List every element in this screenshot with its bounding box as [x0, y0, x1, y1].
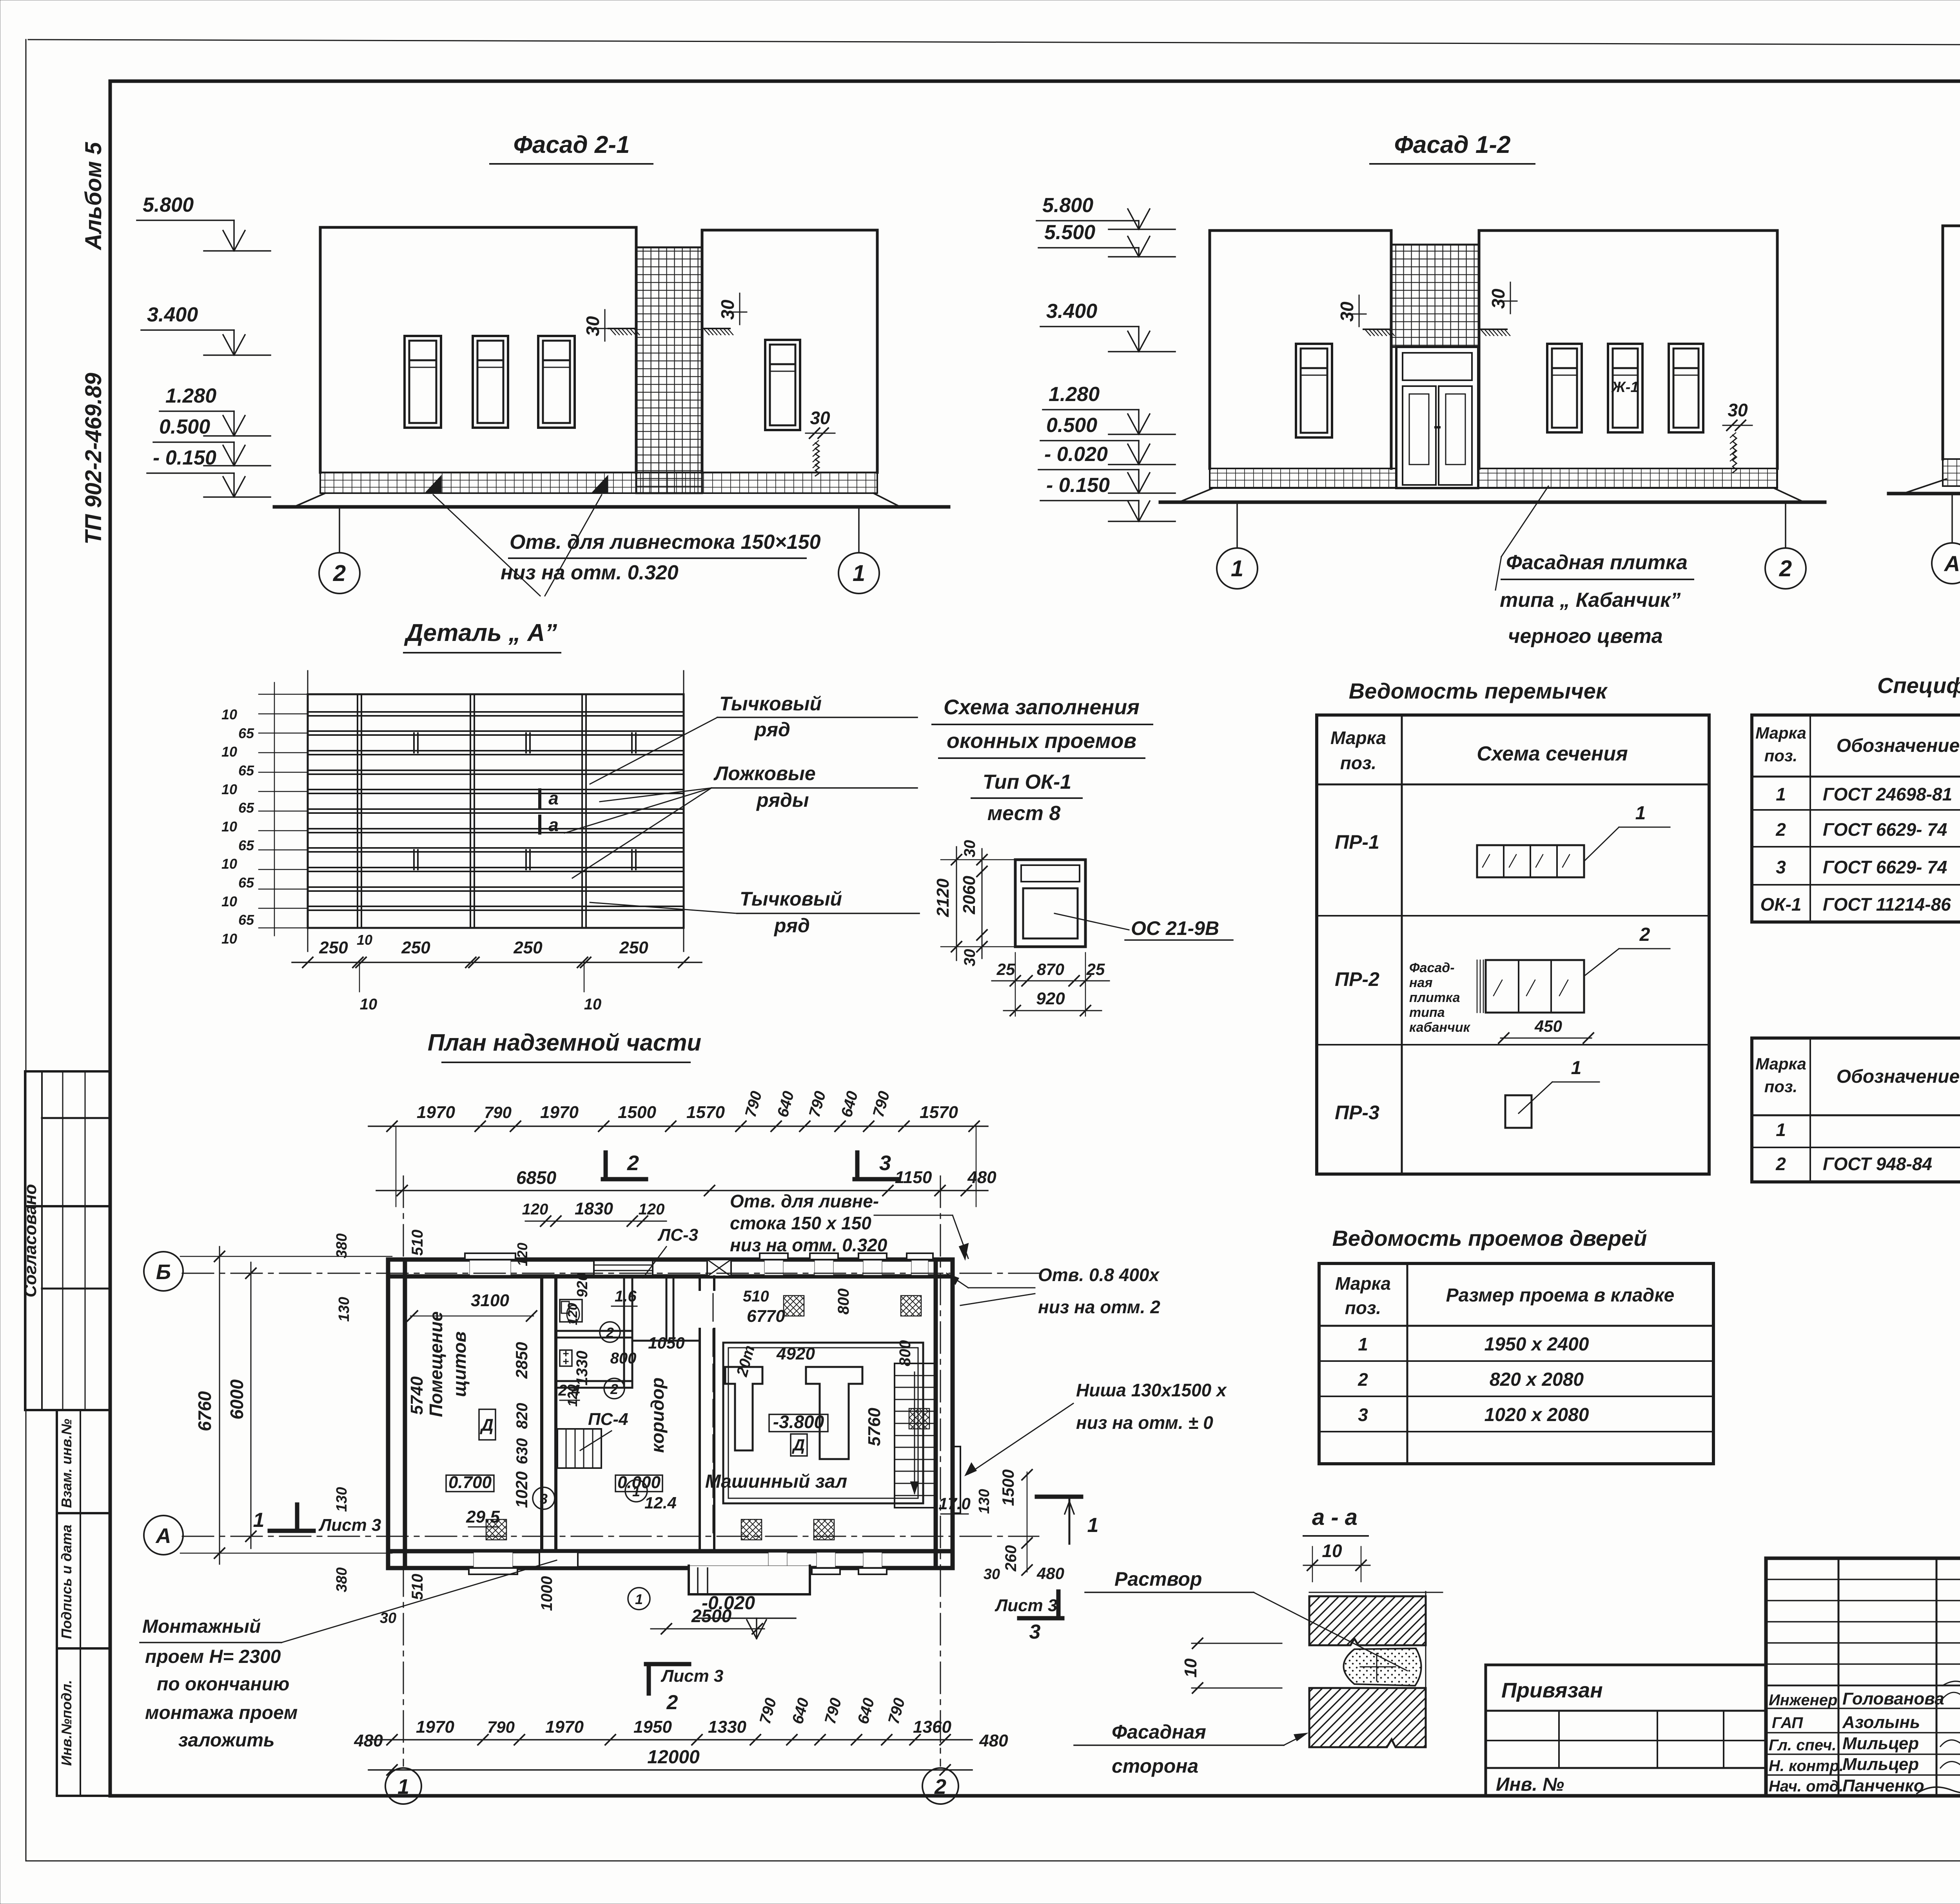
svg-text:1950 х 2400: 1950 х 2400 — [1485, 1334, 1589, 1355]
svg-text:Д: Д — [792, 1436, 805, 1454]
svg-text:ГОСТ 11214-86: ГОСТ 11214-86 — [1823, 894, 1951, 915]
svg-text:1500: 1500 — [999, 1469, 1017, 1506]
svg-text:0.700: 0.700 — [448, 1473, 492, 1492]
svg-text:низ на отм. ± 0: низ на отм. ± 0 — [1076, 1412, 1213, 1433]
svg-text:130: 130 — [336, 1297, 352, 1321]
svg-text:Отв. 0.8 400х: Отв. 0.8 400х — [1038, 1265, 1160, 1285]
plan top dim chain 2 — [525, 1221, 666, 1222]
facade 2-1 axis 1 — [858, 507, 860, 553]
svg-text:Схема сечения: Схема сечения — [1477, 742, 1628, 765]
svg-text:10: 10 — [360, 996, 377, 1013]
svg-text:Лист 3: Лист 3 — [995, 1596, 1057, 1615]
svg-text:ТП 902-2-469.89: ТП 902-2-469.89 — [81, 373, 106, 545]
plan stairs right — [895, 1363, 935, 1508]
svg-text:12.4: 12.4 — [644, 1494, 677, 1512]
svg-text:30: 30 — [717, 299, 738, 320]
plan outer walls — [388, 1258, 953, 1262]
a-a mortar joint — [1344, 1648, 1421, 1686]
plan bottom main chain — [368, 1739, 972, 1741]
svg-text:- 0.020: - 0.020 — [1044, 443, 1108, 466]
section mark list3-2 bottom — [646, 1662, 689, 1666]
svg-text:10: 10 — [584, 996, 602, 1013]
svg-text:1000: 1000 — [538, 1576, 555, 1611]
svg-text:Мильцер: Мильцер — [1842, 1734, 1919, 1753]
svg-text:Фасад 2-1: Фасад 2-1 — [513, 131, 630, 158]
svg-text:65: 65 — [238, 800, 254, 816]
svg-text:2: 2 — [1357, 1369, 1368, 1390]
svg-text:Фасадная: Фасадная — [1112, 1721, 1206, 1743]
svg-text:2: 2 — [627, 1151, 639, 1175]
svg-text:120: 120 — [639, 1201, 665, 1218]
door openings table — [1319, 1263, 1713, 1464]
svg-text:250: 250 — [319, 938, 348, 957]
svg-text:сторона: сторона — [1112, 1755, 1198, 1777]
facade 2-1 livnestok holes — [425, 476, 441, 493]
svg-text:10: 10 — [221, 856, 237, 872]
svg-text:Тычковый: Тычковый — [719, 693, 822, 715]
svg-text:Тычковый: Тычковый — [740, 888, 842, 910]
plan montage opening left bottom — [539, 1553, 578, 1566]
svg-text:6760: 6760 — [194, 1391, 215, 1431]
plan niche on right wall — [953, 1447, 960, 1513]
svg-text:480: 480 — [967, 1168, 996, 1187]
svg-text:29.5: 29.5 — [466, 1507, 500, 1526]
svg-text:Обозначение: Обозначение — [1837, 1066, 1960, 1087]
svg-text:заложить: заложить — [178, 1730, 275, 1751]
svg-text:- 0.150: - 0.150 — [153, 447, 216, 469]
svg-text:1950: 1950 — [633, 1717, 672, 1737]
svg-text:мест 8: мест 8 — [987, 802, 1061, 825]
plan 12000 dim — [368, 1769, 972, 1771]
svg-text:480: 480 — [354, 1731, 383, 1750]
svg-text:Машинный зал: Машинный зал — [705, 1471, 848, 1492]
svg-text:Помещение: Помещение — [426, 1311, 446, 1417]
facade 1-2 hatched tower over door — [1391, 245, 1479, 347]
svg-text:30: 30 — [961, 949, 978, 967]
svg-text:10: 10 — [221, 706, 237, 722]
svg-text:Ж-1: Ж-1 — [1611, 379, 1639, 396]
svg-text:450: 450 — [1534, 1017, 1562, 1035]
a-a upper brick — [1309, 1596, 1426, 1645]
svg-text:Д: Д — [479, 1416, 494, 1435]
signatures — [1940, 1690, 1960, 1710]
svg-text:А: А — [1944, 551, 1960, 576]
plan axis lines — [182, 1273, 1039, 1274]
svg-text:Инв. №: Инв. № — [1496, 1774, 1564, 1795]
plan pump 1 — [725, 1367, 762, 1450]
svg-text:10: 10 — [1322, 1541, 1342, 1561]
svg-text:ГОСТ 24698-81: ГОСТ 24698-81 — [1823, 784, 1952, 804]
soglasovano stamp — [25, 1071, 110, 1410]
svg-text:30: 30 — [1488, 289, 1508, 309]
svg-text:Подпись и дата: Подпись и дата — [58, 1525, 74, 1639]
facade 1-2 left block — [1210, 231, 1391, 468]
svg-text:630: 630 — [514, 1438, 531, 1465]
svg-text:ОС 21-9В: ОС 21-9В — [1131, 917, 1219, 939]
svg-text:790: 790 — [484, 1103, 512, 1122]
svg-text:ПР-2: ПР-2 — [1335, 968, 1379, 990]
svg-text:250: 250 — [401, 938, 430, 957]
section mark 1 right — [1037, 1495, 1081, 1499]
detail A mid joints — [413, 733, 415, 753]
svg-text:Марка: Марка — [1335, 1273, 1391, 1294]
svg-text:1500: 1500 — [618, 1103, 656, 1122]
svg-text:ряд: ряд — [773, 915, 810, 937]
plan top windows — [465, 1253, 515, 1260]
svg-text:3: 3 — [879, 1151, 891, 1175]
facade 1-2 ground — [1180, 488, 1803, 502]
facade A-B wall — [1943, 226, 1960, 459]
svg-text:0.500: 0.500 — [1046, 414, 1097, 437]
svg-text:3: 3 — [1776, 857, 1786, 877]
plan small stair PS-4 — [557, 1429, 601, 1468]
svg-text:3100: 3100 — [471, 1291, 509, 1310]
facade 2-1 window w2 — [473, 336, 508, 428]
privyazan table — [1486, 1665, 1766, 1796]
svg-text:1: 1 — [1571, 1058, 1582, 1078]
detail A bottom dims — [292, 962, 702, 963]
svg-text:25: 25 — [996, 960, 1015, 978]
facade 1-2 window left — [1296, 344, 1332, 437]
svg-text:по окончанию: по окончанию — [157, 1674, 289, 1695]
svg-text:Лист 3: Лист 3 — [661, 1666, 723, 1686]
plan top dim chain 1 — [376, 1190, 988, 1191]
svg-text:Лист 3: Лист 3 — [318, 1516, 381, 1535]
svg-text:1970: 1970 — [540, 1103, 579, 1122]
svg-text:3: 3 — [1029, 1621, 1041, 1643]
facade 2-1 ground line — [274, 505, 949, 509]
svg-text:25: 25 — [1086, 960, 1105, 978]
svg-text:ПР-3: ПР-3 — [1335, 1102, 1379, 1124]
svg-text:820 х 2080: 820 х 2080 — [1490, 1369, 1584, 1390]
plan section marks — [603, 1177, 646, 1182]
svg-text:Марка: Марка — [1755, 1055, 1806, 1073]
svg-text:1: 1 — [1776, 1120, 1786, 1140]
svg-text:65: 65 — [238, 912, 254, 928]
facade 2-1 livnestok leaders — [433, 495, 540, 596]
svg-text:480: 480 — [979, 1731, 1008, 1750]
svg-text:4920: 4920 — [776, 1344, 815, 1363]
svg-text:1330: 1330 — [573, 1351, 591, 1386]
svg-text:Монтажный: Монтажный — [142, 1616, 261, 1637]
spec lintels table — [1752, 1038, 1960, 1182]
svg-text:ГОСТ 948-84: ГОСТ 948-84 — [1823, 1154, 1932, 1174]
title block main — [1766, 1558, 1960, 1796]
facade 1-2 right block — [1479, 231, 1777, 468]
facade 1-2 parapet 30 marks — [1363, 329, 1391, 330]
svg-text:380: 380 — [334, 1233, 350, 1258]
detail A bay joints — [357, 694, 358, 928]
svg-text:1: 1 — [635, 1591, 643, 1607]
svg-text:1020: 1020 — [512, 1471, 531, 1508]
svg-text:ПР-1: ПР-1 — [1335, 831, 1379, 853]
svg-text:10: 10 — [221, 931, 237, 947]
svg-text:Б: Б — [156, 1260, 171, 1284]
svg-text:1570: 1570 — [686, 1103, 725, 1122]
svg-text:2850: 2850 — [512, 1342, 531, 1379]
svg-text:Схема заполнения: Схема заполнения — [944, 695, 1140, 719]
facade 1-2 plinth band — [1210, 468, 1396, 488]
svg-text:-3.800: -3.800 — [773, 1412, 824, 1432]
plan top opening ls3 — [594, 1261, 653, 1275]
plan toilet — [560, 1300, 582, 1322]
facade 2-1 hatched tower — [636, 247, 702, 493]
plan pump 2 — [806, 1367, 862, 1459]
svg-text:Отв. для ливнестока 150×150: Отв. для ливнестока 150×150 — [510, 531, 821, 554]
svg-text:30: 30 — [984, 1566, 1000, 1583]
svg-text:1: 1 — [1231, 556, 1243, 581]
svg-text:ОК-1: ОК-1 — [1760, 894, 1802, 915]
svg-text:ная: ная — [1409, 975, 1432, 990]
svg-text:- 0.150: - 0.150 — [1046, 474, 1110, 497]
svg-text:Ложковые: Ложковые — [713, 762, 816, 784]
svg-text:1830: 1830 — [575, 1199, 613, 1218]
svg-text:790: 790 — [487, 1718, 515, 1736]
svg-text:2: 2 — [934, 1775, 946, 1799]
facade 2-1 window w1 — [405, 336, 441, 428]
svg-text:низ на отм. 0.320: низ на отм. 0.320 — [501, 561, 679, 584]
a-a dim 10 left — [1192, 1643, 1282, 1644]
svg-text:Фасадная плитка: Фасадная плитка — [1506, 551, 1688, 574]
svg-text:монтажа проем: монтажа проем — [145, 1703, 298, 1723]
lintel schedule table — [1317, 715, 1709, 1174]
svg-text:510: 510 — [743, 1288, 769, 1305]
svg-text:плитка: плитка — [1409, 990, 1460, 1005]
facade 1-2 axis 1 — [1236, 502, 1238, 548]
svg-text:Н. контр.: Н. контр. — [1769, 1757, 1844, 1775]
svg-text:30: 30 — [583, 316, 603, 336]
svg-text:2: 2 — [333, 561, 346, 586]
svg-text:5.500: 5.500 — [1044, 221, 1095, 244]
OK-1 dims — [956, 847, 957, 960]
svg-text:Азолынь: Азолынь — [1842, 1713, 1920, 1732]
facade A-B axis A — [1951, 494, 1953, 542]
detail A vertical edge lines — [307, 671, 309, 951]
svg-text:65: 65 — [238, 837, 254, 853]
svg-text:5760: 5760 — [865, 1408, 884, 1446]
svg-text:стока 150 х 150: стока 150 х 150 — [730, 1213, 871, 1233]
svg-text:коридор: коридор — [647, 1378, 668, 1453]
facade 2-1 right block wall — [702, 230, 877, 472]
svg-text:Гл. спеч.: Гл. спеч. — [1769, 1737, 1837, 1754]
svg-text:Фасад 1-2: Фасад 1-2 — [1394, 131, 1510, 158]
svg-text:2: 2 — [1775, 819, 1786, 840]
svg-text:6000: 6000 — [227, 1379, 247, 1419]
plan circled pos numbers — [600, 1322, 620, 1342]
svg-text:65: 65 — [238, 725, 254, 741]
svg-text:1970: 1970 — [416, 1717, 454, 1737]
svg-text:65: 65 — [238, 762, 254, 779]
svg-text:Фасад-: Фасад- — [1409, 960, 1455, 975]
svg-text:1360: 1360 — [913, 1717, 951, 1737]
plan machine hall pit — [723, 1343, 923, 1503]
svg-text:Отв. для ливне-: Отв. для ливне- — [730, 1191, 879, 1211]
svg-text:870: 870 — [1037, 960, 1064, 978]
svg-text:1570: 1570 — [920, 1103, 958, 1122]
facade 2-1 axis 2 — [339, 507, 340, 553]
plan niches hatch — [784, 1296, 804, 1316]
svg-text:a: a — [548, 815, 559, 835]
svg-text:a - a: a - a — [1312, 1505, 1357, 1530]
OK-1 bottom dims — [992, 980, 1109, 982]
svg-text:820: 820 — [514, 1403, 531, 1429]
svg-text:30: 30 — [1728, 400, 1748, 420]
svg-text:Ниша 130х1500 х: Ниша 130х1500 х — [1076, 1380, 1227, 1400]
svg-text:1: 1 — [253, 1509, 265, 1532]
svg-text:510: 510 — [409, 1230, 426, 1256]
svg-text:2: 2 — [606, 1325, 614, 1341]
facade 2-1 parapet 30 marks — [608, 328, 636, 329]
plan livnestok X hole top — [707, 1260, 731, 1276]
svg-text:2060: 2060 — [960, 876, 979, 915]
svg-text:130: 130 — [334, 1487, 350, 1512]
svg-text:10: 10 — [221, 781, 237, 797]
svg-text:5740: 5740 — [407, 1376, 426, 1415]
facade 1-2 axis 2 — [1785, 502, 1786, 548]
svg-text:типа: типа — [1409, 1005, 1445, 1020]
svg-text:120: 120 — [514, 1243, 530, 1266]
svg-text:800: 800 — [835, 1289, 852, 1315]
a-a lower brick — [1309, 1688, 1426, 1747]
svg-text:Панченко: Панченко — [1842, 1776, 1924, 1795]
plan corridor right wall — [699, 1276, 701, 1290]
svg-text:ГАП: ГАП — [1772, 1714, 1803, 1732]
svg-text:2: 2 — [1775, 1154, 1786, 1174]
svg-text:Размер проема в кладке: Размер проема в кладке — [1446, 1285, 1675, 1306]
svg-text:Нач. отд.: Нач. отд. — [1769, 1778, 1843, 1795]
svg-text:ряд: ряд — [754, 719, 790, 741]
svg-text:2: 2 — [610, 1381, 618, 1397]
svg-text:Согласовано: Согласовано — [21, 1184, 40, 1297]
svg-text:Взам. инв.№: Взам. инв.№ — [58, 1419, 74, 1508]
plan left overall dims — [219, 1247, 220, 1564]
svg-text:Альбом 5: Альбом 5 — [81, 142, 106, 251]
svg-text:260: 260 — [1002, 1545, 1020, 1572]
svg-text:120: 120 — [565, 1385, 580, 1407]
svg-text:Марка: Марка — [1755, 724, 1806, 742]
svg-text:a: a — [548, 788, 559, 808]
plan entrance porch — [689, 1566, 810, 1594]
svg-text:Тип ОК-1: Тип ОК-1 — [983, 771, 1071, 793]
svg-text:10: 10 — [357, 932, 372, 948]
svg-text:2: 2 — [1779, 556, 1792, 581]
svg-text:1: 1 — [1358, 1334, 1368, 1354]
facade A-B plinth band — [1943, 459, 1960, 486]
svg-text:А: А — [155, 1524, 171, 1548]
svg-text:510: 510 — [409, 1574, 426, 1600]
svg-text:поз.: поз. — [1345, 1298, 1381, 1318]
svg-text:оконных проемов: оконных проемов — [947, 729, 1136, 753]
svg-text:ГОСТ 6629- 74: ГОСТ 6629- 74 — [1823, 857, 1947, 877]
svg-text:0.000: 0.000 — [617, 1473, 661, 1492]
svg-text:480: 480 — [1036, 1564, 1064, 1583]
svg-text:проем Н= 2300: проем Н= 2300 — [145, 1646, 281, 1667]
plan bathroom walls — [623, 1276, 625, 1388]
svg-text:ПС-4: ПС-4 — [588, 1410, 628, 1429]
svg-text:30: 30 — [810, 408, 830, 428]
svg-text:Мильцер: Мильцер — [1842, 1755, 1919, 1774]
svg-text:920: 920 — [574, 1272, 591, 1297]
svg-text:0.500: 0.500 — [159, 416, 210, 438]
svg-text:Деталь „ А”: Деталь „ А” — [404, 619, 557, 646]
svg-text:3: 3 — [540, 1491, 548, 1507]
svg-text:6770: 6770 — [747, 1307, 785, 1326]
svg-text:Привязан: Привязан — [1501, 1679, 1603, 1702]
svg-text:5.800: 5.800 — [143, 194, 194, 216]
plan axis circles — [144, 1252, 183, 1291]
detail A brick panel — [308, 694, 684, 928]
svg-text:Спецификация элементов запо: Спецификация элементов заполнения проемо… — [1877, 673, 1960, 698]
svg-text:щитов: щитов — [449, 1331, 470, 1397]
svg-text:ГОСТ 6629- 74: ГОСТ 6629- 74 — [1823, 819, 1947, 840]
svg-text:1020 х 2080: 1020 х 2080 — [1485, 1405, 1589, 1425]
plan partition left room — [540, 1276, 543, 1551]
facade 2-1 window w3 — [538, 336, 575, 428]
svg-text:низ на отм. 2: низ на отм. 2 — [1038, 1297, 1160, 1317]
facade 1-2 plitka leader — [1501, 486, 1548, 557]
svg-text:130: 130 — [976, 1489, 993, 1514]
plan machine hall crane axis dashed — [713, 1294, 714, 1541]
svg-text:1970: 1970 — [417, 1103, 455, 1122]
svg-text:Марка: Марка — [1330, 728, 1386, 748]
svg-text:ряды: ряды — [756, 789, 809, 811]
svg-text:1: 1 — [853, 561, 865, 586]
svg-text:10: 10 — [221, 744, 237, 760]
svg-text:65: 65 — [238, 875, 254, 891]
svg-text:2500: 2500 — [691, 1606, 732, 1626]
plan elec box — [560, 1350, 572, 1366]
svg-text:30: 30 — [961, 840, 978, 858]
svg-text:5.800: 5.800 — [1042, 194, 1093, 217]
svg-text:2: 2 — [666, 1691, 678, 1714]
svg-text:380: 380 — [334, 1567, 350, 1592]
plan topmost dim chain — [368, 1125, 988, 1127]
section mark 1 left — [270, 1529, 314, 1533]
section mark list3-3 right — [1019, 1616, 1062, 1621]
svg-text:250: 250 — [513, 938, 543, 957]
svg-text:Ведомость проемов дверей: Ведомость проемов дверей — [1332, 1226, 1647, 1251]
svg-text:120: 120 — [522, 1201, 548, 1218]
svg-text:2120: 2120 — [933, 878, 953, 917]
svg-text:1330: 1330 — [708, 1717, 746, 1737]
svg-text:1.6: 1.6 — [615, 1288, 637, 1305]
svg-text:Инженер: Инженер — [1769, 1692, 1837, 1709]
svg-text:920: 920 — [1036, 989, 1065, 1008]
svg-text:30: 30 — [1337, 301, 1357, 322]
facade 2-1 left block wall — [320, 227, 636, 472]
svg-text:800: 800 — [897, 1340, 914, 1367]
svg-text:1.280: 1.280 — [1049, 383, 1100, 406]
svg-text:250: 250 — [619, 938, 648, 957]
facade 2-1 plinth band — [320, 472, 877, 493]
svg-text:3.400: 3.400 — [147, 303, 198, 326]
svg-text:2: 2 — [1639, 924, 1650, 945]
sheet outer edge — [28, 40, 1960, 46]
svg-text:Ведомость перемычек: Ведомость перемычек — [1349, 679, 1608, 703]
OK-1 OS label — [1054, 913, 1129, 930]
detail A section a marks — [538, 790, 541, 807]
svg-text:6850: 6850 — [516, 1167, 557, 1188]
svg-text:Инв.№подл.: Инв.№подл. — [58, 1680, 74, 1766]
svg-text:План надземной части: План надземной части — [428, 1029, 701, 1056]
svg-text:3: 3 — [1358, 1405, 1368, 1425]
svg-text:поз.: поз. — [1340, 753, 1376, 773]
svg-text:1: 1 — [397, 1775, 409, 1799]
facade 1-2 windows right — [1547, 344, 1582, 432]
facade A-B ground — [1904, 479, 1960, 493]
spec fill table — [1752, 715, 1960, 922]
svg-text:1.280: 1.280 — [165, 385, 216, 407]
